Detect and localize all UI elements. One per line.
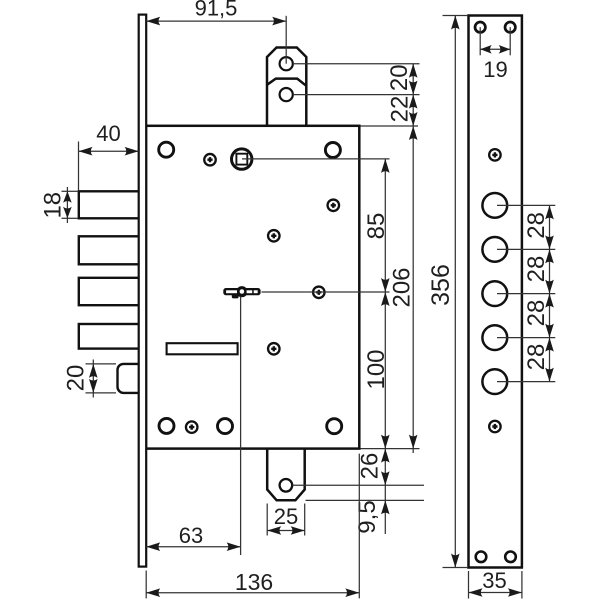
- screw hole D: [312, 285, 326, 299]
- ext 136 left: [145, 571, 147, 599]
- ext tab hole upper: [294, 63, 420, 65]
- svg-text:356: 356: [427, 264, 455, 306]
- svg-text:100: 100: [363, 349, 390, 389]
- bolt 2 (deadbolt pin): [79, 236, 140, 264]
- ext 25 left: [266, 504, 268, 536]
- svg-text:28: 28: [523, 344, 550, 371]
- bolt 4 (deadbolt pin): [79, 324, 140, 349]
- dim 20 latch ext bottom: [86, 392, 117, 394]
- body hole top-left: [159, 142, 174, 157]
- svg-text:206: 206: [388, 267, 415, 307]
- svg-text:136: 136: [235, 569, 273, 595]
- dim 19 line: [480, 48, 510, 50]
- plate bottom hole right: [505, 552, 516, 563]
- plate large hole 3: [482, 281, 507, 306]
- body hole bottom-mid: [218, 419, 233, 434]
- dim 356 ext bottom: [443, 567, 469, 569]
- plate large hole 5: [482, 369, 507, 394]
- dim 63 line: [146, 546, 240, 548]
- ext 136 right: [358, 454, 360, 599]
- dim 19 ext right: [509, 27, 511, 55]
- dim 18 ext top: [62, 190, 78, 192]
- svg-text:91,5: 91,5: [195, 0, 238, 20]
- screw hole B: [326, 198, 340, 212]
- svg-text:35: 35: [482, 568, 506, 593]
- svg-text:28: 28: [523, 300, 550, 327]
- bolt 3 (deadbolt pin): [79, 278, 140, 305]
- ext body top: [361, 125, 419, 127]
- dim 35 line: [469, 592, 522, 594]
- plate large hole 2: [482, 237, 507, 262]
- ext tab hole 485: [293, 484, 425, 486]
- spindle follower: [232, 149, 252, 169]
- dim 40 extension: [78, 142, 80, 191]
- rectangular slot: [167, 343, 238, 354]
- svg-text:18: 18: [39, 192, 66, 219]
- dim 18 ext bottom: [62, 217, 78, 219]
- svg-text:20: 20: [386, 64, 413, 91]
- lock body plate: [146, 126, 359, 449]
- ext plate hole 2: [497, 248, 555, 250]
- dim 20 latch line: [92, 360, 94, 398]
- ext 25 right: [304, 504, 306, 536]
- top tab hole upper: [280, 57, 293, 70]
- dim 356 line: [454, 16, 456, 568]
- svg-text:19: 19: [483, 57, 507, 82]
- dim chain 85-100-26-9,5 line: [384, 159, 386, 534]
- plate large hole 4: [482, 325, 507, 350]
- ext plate hole 1: [497, 204, 555, 206]
- bolt 1 (deadbolt pin): [79, 191, 140, 218]
- screw hole A: [203, 153, 217, 167]
- dim 20 latch ext top: [86, 363, 117, 365]
- screw hole E: [267, 342, 281, 356]
- svg-text:20: 20: [63, 365, 90, 392]
- plate top hole right: [505, 22, 515, 32]
- dim 40 line: [79, 150, 139, 152]
- svg-text:22: 22: [386, 96, 413, 123]
- svg-text:25: 25: [274, 504, 298, 529]
- plate large hole 1: [482, 193, 507, 218]
- top tab hole lower: [280, 88, 293, 101]
- dim 28 chain line: [549, 205, 551, 381]
- ext plate hole 4: [497, 337, 555, 339]
- ext plate hole 3: [497, 293, 555, 295]
- dim 136 line: [146, 592, 359, 594]
- plate bottom hole left: [476, 552, 487, 563]
- plate top hole left: [475, 22, 485, 32]
- svg-text:85: 85: [363, 213, 390, 240]
- svg-text:9,5: 9,5: [354, 500, 381, 533]
- body hole top-right: [325, 143, 340, 158]
- dim 356 ext top: [443, 15, 469, 17]
- ext body bottom: [361, 448, 420, 450]
- dim 35 ext right: [521, 571, 523, 599]
- svg-text:63: 63: [179, 523, 203, 548]
- double-bit key slot: [223, 286, 260, 298]
- dim 91,5 line: [146, 20, 286, 22]
- dim 18 line: [66, 187, 68, 223]
- screw hole C: [267, 229, 281, 243]
- ext tab hole lower: [294, 94, 420, 96]
- body hole bottom-right: [327, 419, 342, 434]
- svg-text:26: 26: [357, 453, 384, 480]
- screw hole F: [185, 420, 199, 434]
- dim 25 line: [267, 530, 305, 532]
- bottom tab hole: [280, 479, 293, 492]
- bottom fixing tab: [267, 448, 304, 500]
- ext key axis vertical: [240, 297, 242, 556]
- body hole bottom-left: [159, 418, 174, 433]
- faceplate (front strip): [139, 15, 147, 567]
- ext plate hole 5: [497, 381, 555, 383]
- ext key axis horizontal: [262, 291, 390, 293]
- ext follower axis: [242, 158, 390, 160]
- dim 19 ext left: [479, 27, 481, 55]
- svg-text:40: 40: [96, 121, 120, 146]
- top fixing tab: [267, 48, 306, 128]
- strike plate: [469, 16, 522, 568]
- plate screw hole upper: [488, 148, 502, 162]
- top tab chevron edge: [267, 79, 306, 86]
- svg-text:28: 28: [523, 256, 550, 283]
- dim 91,5 extension: [285, 16, 287, 64]
- svg-text:28: 28: [523, 212, 550, 239]
- plate screw hole lower: [488, 420, 502, 434]
- latch bolt: [118, 364, 141, 393]
- dim chain 20-22-206 line: [412, 64, 414, 453]
- ext tab bottom 500: [306, 499, 425, 501]
- dim 35 ext left: [468, 571, 470, 599]
